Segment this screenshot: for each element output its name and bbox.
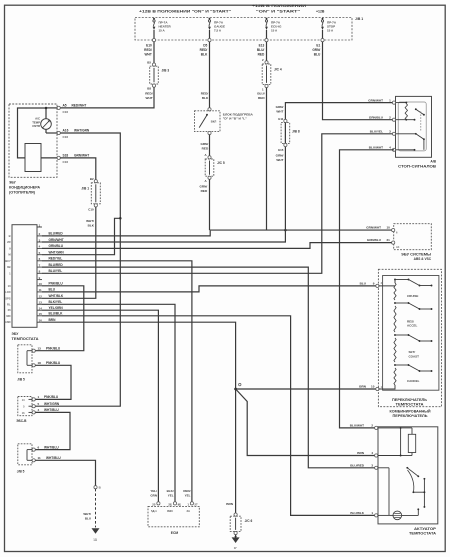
resistor R inside stop switch bbox=[405, 104, 407, 120]
svg-text:BLU/WHT: BLU/WHT bbox=[350, 424, 364, 428]
motor M symbol bbox=[393, 511, 402, 520]
svg-text:RED/: RED/ bbox=[201, 92, 209, 96]
fuse F2 label bbox=[214, 20, 225, 32]
solenoid coil bbox=[400, 428, 416, 457]
svg-text:GRN/: GRN/ bbox=[200, 142, 208, 146]
wire J/C4 down to IG bus bbox=[266, 88, 268, 231]
svg-text:15 A: 15 A bbox=[271, 28, 278, 32]
ABS ECU dashed box bbox=[394, 224, 432, 250]
svg-text:J/B 5: J/B 5 bbox=[17, 469, 25, 473]
svg-text:J/C 4: J/C 4 bbox=[274, 68, 282, 72]
fuse F1 HEATER 15 A bbox=[153, 18, 156, 39]
stop switch pin labels bbox=[368, 98, 391, 149]
wire label E1 GRN/BLU bbox=[312, 44, 321, 57]
svg-text:BLU/YEL: BLU/YEL bbox=[49, 269, 63, 273]
ECU pin 7 stub bbox=[37, 263, 42, 267]
svg-text:GRN/WHT: GRN/WHT bbox=[74, 154, 89, 158]
svg-text:YEL/: YEL/ bbox=[150, 489, 157, 493]
svg-text:CANCEL: CANCEL bbox=[407, 379, 420, 383]
svg-text:YEL/GRN: YEL/GRN bbox=[49, 306, 64, 310]
wire ECU pin11 BLU to control switch pin9 bbox=[42, 286, 377, 292]
svg-text:15 A: 15 A bbox=[159, 28, 166, 32]
svg-text:WHT/: WHT/ bbox=[83, 512, 91, 516]
svg-text:RED/: RED/ bbox=[144, 48, 152, 52]
svg-text:АКТУАТОР: АКТУАТОР bbox=[414, 527, 437, 531]
fuse F4 label bbox=[327, 20, 337, 32]
label A/C TEMP CNTR bbox=[32, 117, 40, 129]
svg-text:B2: B2 bbox=[90, 177, 94, 181]
svg-text:A16: A16 bbox=[63, 129, 69, 133]
label BLU 9 bbox=[360, 282, 383, 286]
actuator pin labels bbox=[350, 424, 374, 515]
svg-text:D5: D5 bbox=[203, 44, 207, 48]
svg-text:BLU/RED: BLU/RED bbox=[49, 232, 64, 236]
ECU pin 4 stub bbox=[37, 245, 42, 249]
wire J/C5 down to IG bus corner bbox=[209, 179, 211, 230]
stop switch internal resistor bbox=[396, 102, 408, 104]
internal wiring of A/C amplifier bbox=[18, 108, 58, 158]
svg-text:BLU: BLU bbox=[360, 282, 367, 286]
svg-text:E1: E1 bbox=[316, 44, 320, 48]
svg-text:E10: E10 bbox=[146, 44, 152, 48]
svg-text:ТЕМПОСТАТА: ТЕМПОСТАТА bbox=[409, 531, 437, 535]
svg-text:BRN: BRN bbox=[357, 451, 364, 455]
svg-text:13: 13 bbox=[38, 346, 42, 350]
wire ECU pin5 WHT/GRN jog up to vertical B bbox=[42, 218, 120, 254]
svg-text:WHT: WHT bbox=[276, 158, 283, 162]
label combination switch bbox=[390, 410, 432, 419]
svg-text:RL: RL bbox=[7, 302, 11, 306]
label actuator bbox=[409, 527, 437, 536]
svg-text:BLU/RED: BLU/RED bbox=[49, 263, 64, 267]
ABS pin labels bbox=[366, 226, 400, 249]
svg-text:ПЕРЕКЛЮЧАТЕЛЬ: ПЕРЕКЛЮЧАТЕЛЬ bbox=[392, 398, 428, 402]
svg-text:10: 10 bbox=[39, 282, 43, 286]
svg-text:PNK/BLU: PNK/BLU bbox=[49, 282, 64, 286]
svg-text:C16: C16 bbox=[63, 135, 69, 139]
svg-text:GRN/: GRN/ bbox=[199, 185, 207, 189]
switch contact arm 4 bbox=[394, 364, 432, 372]
actuator motor branch bbox=[378, 468, 393, 516]
svg-text:YEL: YEL bbox=[168, 494, 174, 498]
label ABS & VSC ECU bbox=[401, 252, 432, 261]
connector pin10 BRN bbox=[376, 387, 379, 390]
svg-text:J/B 1: J/B 1 bbox=[81, 186, 89, 190]
fuse F1 label bbox=[159, 20, 172, 32]
junction block box1 PNK/BLU bbox=[18, 345, 36, 373]
junction connector J/C 4 on F3 wire bbox=[262, 61, 271, 88]
wire J/B3 to node at y108 then left to A/C amplifier pin A5 bbox=[60, 87, 154, 108]
svg-text:J/B 1: J/B 1 bbox=[355, 17, 363, 21]
svg-text:BLK: BLK bbox=[202, 96, 209, 100]
ECU pin 15 stub bbox=[37, 312, 42, 316]
PNP heater switch block dashed box bbox=[195, 108, 221, 135]
node dot pin5 joins vertical B bbox=[119, 217, 122, 220]
svg-text:C10: C10 bbox=[88, 208, 94, 212]
ground symbol right bbox=[232, 537, 240, 550]
ECM dashed box bbox=[148, 506, 199, 526]
svg-text:ABS & VSC: ABS & VSC bbox=[414, 257, 432, 261]
svg-text:ЕСМ: ЕСМ bbox=[171, 531, 179, 535]
svg-text:10: 10 bbox=[386, 226, 390, 230]
svg-text:WHT/GRN: WHT/GRN bbox=[44, 402, 60, 406]
svg-text:9Б: 9Б bbox=[178, 502, 182, 506]
node junction dot on IG bus bbox=[284, 229, 287, 232]
svg-text:WHT/: WHT/ bbox=[86, 219, 94, 223]
fuse F3 label bbox=[271, 20, 282, 32]
junction block J/B 3 on F1 wire bbox=[150, 63, 159, 87]
wire S18 to J/B 1 bbox=[60, 158, 95, 181]
svg-text:3А: 3А bbox=[187, 509, 190, 513]
svg-text:B5: B5 bbox=[147, 60, 151, 64]
wire GRN/WHT riser: stop switch pin1 to ECU pin3 bbox=[42, 103, 394, 242]
ECU pin 14 stub bbox=[37, 307, 42, 311]
svg-text:2Б: 2Б bbox=[168, 502, 172, 506]
label box2 pins bbox=[16, 395, 60, 423]
svg-text:B: B bbox=[9, 234, 11, 238]
svg-text:RED/: RED/ bbox=[200, 48, 208, 52]
svg-text:RED/: RED/ bbox=[145, 92, 153, 96]
svg-text:RED/WHT: RED/WHT bbox=[72, 104, 87, 108]
ECM internal pin ids bbox=[151, 509, 190, 513]
svg-text:BLU/BLK: BLU/BLK bbox=[350, 511, 364, 515]
node BRN junction dot bbox=[234, 388, 237, 391]
svg-text:C16: C16 bbox=[63, 110, 69, 114]
junction block J/B 1 on WHT/BLK wire bbox=[91, 180, 100, 207]
label stop lamp switch bbox=[398, 160, 437, 169]
ECU pin 6 stub bbox=[37, 257, 42, 261]
small circle marker near BRN node bbox=[239, 383, 241, 385]
wire fuse F2 down to PNP switch block bbox=[209, 42, 211, 109]
svg-text:MD: MD bbox=[6, 314, 10, 318]
svg-text:E13: E13 bbox=[259, 44, 265, 48]
junction connector E11/E15 on GRN/WHT wire bbox=[278, 117, 300, 152]
resistor ladder zigzags bbox=[394, 283, 396, 385]
svg-text:ЭБС-В: ЭБС-В bbox=[16, 419, 27, 423]
wire PNP block to J/C5 bbox=[209, 135, 211, 158]
fuse F4 STOP 15 A bbox=[321, 18, 324, 39]
svg-text:КОНДИЦИОНЕРА: КОНДИЦИОНЕРА bbox=[9, 186, 41, 190]
svg-text:2R: 2R bbox=[7, 240, 10, 244]
wire label RED/WHT below J/B3 bbox=[145, 92, 153, 100]
svg-text:COAST: COAST bbox=[409, 354, 420, 358]
wire label BLU/RED below J/C4 bbox=[257, 92, 265, 100]
svg-text:BLU/: BLU/ bbox=[257, 92, 264, 96]
wire fuse F3 to J/C4 bbox=[266, 42, 268, 62]
A/C amplifier dashed box bbox=[9, 104, 57, 177]
svg-text:10: 10 bbox=[8, 284, 11, 288]
wire box3 pin2 WHT/BLU to shield ground bbox=[35, 460, 95, 485]
connector under fuse F1 bbox=[152, 39, 155, 42]
svg-text:GRN/WHT: GRN/WHT bbox=[368, 98, 383, 102]
svg-text:WHT/BLK: WHT/BLK bbox=[49, 294, 64, 298]
svg-text:BLU/YEL: BLU/YEL bbox=[370, 130, 383, 134]
node dot inside A/C amplifier bbox=[45, 107, 48, 110]
svg-text:1Д: 1Д bbox=[93, 538, 97, 542]
label A / J/C 5 / A bbox=[205, 153, 225, 183]
svg-text:+12В В ПОЛОЖЕНИИ "ON" И "START: +12В В ПОЛОЖЕНИИ "ON" И "START" bbox=[139, 9, 231, 13]
svg-text:27: 27 bbox=[194, 502, 198, 506]
svg-text:16: 16 bbox=[39, 319, 43, 323]
svg-text:"D" И "В" И "L": "D" И "В" И "L" bbox=[223, 117, 248, 121]
svg-text:ЭБУ СИСТЕМЫ: ЭБУ СИСТЕМЫ bbox=[401, 252, 431, 256]
svg-text:8B: 8B bbox=[7, 265, 10, 269]
svg-text:RED: RED bbox=[258, 52, 265, 56]
svg-text:ЭБУ: ЭБУ bbox=[9, 181, 17, 185]
connector on shield ground wire bbox=[94, 486, 97, 489]
svg-text:WHT/BLU: WHT/BLU bbox=[44, 445, 59, 449]
svg-text:GND: GND bbox=[5, 320, 11, 324]
svg-text:+12В В ПОЛОЖЕНИИ: +12В В ПОЛОЖЕНИИ bbox=[252, 4, 307, 8]
svg-text:IN23: IN23 bbox=[167, 509, 173, 513]
svg-text:WHT/BLU: WHT/BLU bbox=[46, 456, 61, 460]
svg-text:BLU/: BLU/ bbox=[257, 48, 265, 52]
ECU pin 1 stub bbox=[37, 223, 42, 227]
svg-text:E11: E11 bbox=[278, 117, 283, 121]
wire A16 WHT/GRN vertical B down to J/B block pin bbox=[35, 133, 121, 406]
svg-text:BRN: BRN bbox=[49, 318, 57, 322]
cruise control ECU box bbox=[12, 225, 37, 328]
svg-text:RED/: RED/ bbox=[183, 489, 190, 493]
svg-text:CRUISE: CRUISE bbox=[407, 294, 418, 298]
stop lamp switch inner housing bbox=[398, 102, 426, 151]
svg-text:BLK/YEL: BLK/YEL bbox=[49, 300, 63, 304]
label box1 pins PNK/BLU bbox=[17, 346, 61, 381]
svg-text:WHT: WHT bbox=[276, 110, 283, 114]
wire ECU pin15 BLU/BLK to actuator pin4 bbox=[42, 316, 375, 516]
svg-text:13: 13 bbox=[39, 301, 43, 305]
connector under fuse F4 bbox=[321, 39, 324, 42]
wire box1 pin2 to box2 pin1 bbox=[35, 365, 71, 399]
svg-text:J/C 5: J/C 5 bbox=[217, 161, 225, 165]
svg-text:PNK/BLU: PNK/BLU bbox=[46, 361, 61, 365]
wire label GRN/WHT below J/C E15 bbox=[276, 153, 284, 161]
ECU pin 12 stub bbox=[37, 295, 42, 299]
svg-text:А/В: А/В bbox=[430, 160, 436, 164]
ECM connector labels YEL/GRN BLK/YEL RED/YEL bbox=[150, 489, 190, 497]
svg-text:12: 12 bbox=[39, 295, 43, 299]
svg-text:21: 21 bbox=[386, 238, 390, 242]
svg-text:RED: RED bbox=[201, 189, 208, 193]
fuse F2 GAUGE 7,5 A bbox=[208, 18, 211, 39]
wire fuse F4 down to stop lamp switch pin 2 bbox=[323, 42, 395, 120]
cruise actuator box bbox=[378, 427, 438, 524]
svg-text:5Д-1: 5Д-1 bbox=[151, 509, 157, 513]
svg-text:BLU: BLU bbox=[314, 52, 321, 56]
actuator pin connectors bbox=[375, 426, 378, 517]
svg-text:E15: E15 bbox=[278, 148, 284, 152]
wire box2 pin3 to box3 pin1 bbox=[35, 412, 70, 449]
actuator position switch contacts bbox=[402, 467, 426, 516]
svg-text:GRN/BLU: GRN/BLU bbox=[367, 238, 382, 242]
svg-text:RED: RED bbox=[202, 147, 209, 151]
svg-text:RED: RED bbox=[258, 96, 265, 100]
junction connector J/C 6 on BRN ground wire bbox=[230, 513, 241, 535]
IG bus wire from F2/F3 to ABS ECU pin 1 bbox=[210, 229, 394, 231]
svg-text:ACCEL: ACCEL bbox=[407, 324, 418, 328]
wire ECU pin8 BLU/YEL to stop switch pin3 bbox=[42, 134, 394, 273]
connector pin9 BLU bbox=[376, 284, 379, 287]
labels B2 / J/B 1 / C10 bbox=[81, 177, 94, 212]
svg-text:15: 15 bbox=[39, 312, 43, 316]
connector under fuse F3 bbox=[265, 39, 268, 42]
svg-text:PNK/BLU: PNK/BLU bbox=[44, 395, 59, 399]
svg-text:BC7: BC7 bbox=[5, 259, 11, 263]
svg-text:GRN/BLU: GRN/BLU bbox=[49, 244, 64, 248]
wire ECU pin4 GRN/BLU to ABS ECU pin2 bbox=[42, 243, 393, 249]
junction block box2 ABS ECU bbox=[18, 397, 36, 416]
svg-text:7,5 A: 7,5 A bbox=[214, 28, 222, 32]
wire label D5 RED/BLK bbox=[200, 44, 208, 57]
stop switch internal contacts lower bbox=[396, 133, 425, 151]
wire stop switch pin4 BLU/WHT to actuator pin1 bbox=[340, 150, 395, 428]
svg-text:BLK: BLK bbox=[88, 223, 95, 227]
svg-text:LCD: LCD bbox=[5, 290, 11, 294]
wire ECU pin16 BRN ground wire bbox=[42, 322, 236, 513]
label RES/ACC bbox=[407, 319, 418, 327]
wire label GRN/WHT above J/C E11 bbox=[276, 105, 284, 113]
ECU pin 9 stub bbox=[37, 276, 42, 280]
ECU pin 10 stub bbox=[37, 282, 42, 286]
label ECU TEMPOSTAT bbox=[12, 332, 40, 341]
svg-text:WHT/GRN: WHT/GRN bbox=[74, 129, 90, 133]
svg-text:BRN: BRN bbox=[359, 385, 366, 389]
connector A5 RED/WHT bbox=[57, 106, 60, 109]
wire fuse F1 to J/B3 bbox=[153, 42, 155, 65]
ECU pin 5 stub bbox=[37, 251, 42, 255]
svg-text:"ON" И "START": "ON" И "START" bbox=[256, 9, 301, 13]
wire ECU pin14 YEL/GRN to ECM bbox=[42, 310, 158, 502]
connector A16 WHT/GRN bbox=[57, 131, 60, 134]
svg-text:ТЕМПОСТАТА: ТЕМПОСТАТА bbox=[396, 402, 425, 406]
wire label GRN/RED above J/C5 bbox=[200, 142, 208, 150]
svg-text:ВКЛ: ВКЛ bbox=[211, 119, 217, 123]
node dot above ground bbox=[235, 536, 237, 538]
label WHT/BLU on shield wire bbox=[83, 512, 91, 520]
control switch resistor ladder bus bbox=[378, 280, 395, 286]
label box3 pins WHT/BLU bbox=[17, 445, 62, 473]
A/C temp control sensor circle bbox=[41, 119, 52, 130]
ECU pin 3 stub bbox=[37, 238, 42, 242]
svg-text:11: 11 bbox=[38, 456, 42, 460]
ABS pin connectors bbox=[392, 229, 395, 245]
switch contact arm 3 bbox=[394, 334, 432, 342]
svg-text:15 A: 15 A bbox=[327, 28, 334, 32]
wire J/C6 to ground bbox=[235, 535, 237, 537]
junction block J/B 2 dashed box bbox=[135, 18, 352, 41]
svg-text:18: 18 bbox=[38, 361, 42, 365]
svg-text:(ОТОПИТЕЛЯ): (ОТОПИТЕЛЯ) bbox=[9, 191, 35, 195]
label BRN 10 bbox=[359, 385, 382, 389]
ECU pin 13 stub bbox=[37, 301, 42, 305]
svg-text:BLK/: BLK/ bbox=[167, 489, 174, 493]
stop switch pin connectors bbox=[392, 101, 395, 151]
switch contact arm 1 bbox=[394, 279, 432, 287]
svg-text:S18: S18 bbox=[63, 154, 69, 158]
svg-text:ТЕМПОСТАТА: ТЕМПОСТАТА bbox=[12, 337, 40, 341]
svg-text:WHT: WHT bbox=[146, 96, 153, 100]
ECU pin 16 stub bbox=[37, 319, 42, 323]
wire label S18 GRN/WHT + C16 bbox=[63, 154, 90, 165]
svg-text:GRN/WHT: GRN/WHT bbox=[49, 238, 64, 242]
svg-text:СТОП-СИГНАЛОВ: СТОП-СИГНАЛОВ bbox=[398, 164, 437, 168]
wire ECU pin2 BLU/RED to IG bus bbox=[42, 231, 210, 236]
wire ECU pin13 BLK/YEL to ECM bbox=[42, 304, 175, 502]
svg-text:КОМБИНИРОВАННЫЙ: КОМБИНИРОВАННЫЙ bbox=[390, 410, 432, 414]
wire label GRN/RED below J/C5 bbox=[199, 185, 207, 193]
connector under fuse F2 bbox=[208, 39, 211, 42]
stop switch internal contacts upper bbox=[396, 108, 425, 131]
svg-text:C16: C16 bbox=[63, 160, 69, 164]
wire J/B1 down to ECU pin12 bbox=[42, 207, 96, 298]
label heater block bbox=[223, 113, 254, 121]
label A/C amplifier bbox=[9, 181, 41, 195]
svg-text:A4: A4 bbox=[396, 245, 400, 249]
wire label A5 RED/WHT + C16 bbox=[63, 104, 87, 115]
svg-text:BLU: BLU bbox=[49, 288, 56, 292]
label control switch bbox=[392, 398, 428, 406]
svg-text:WHT/GRN: WHT/GRN bbox=[49, 251, 65, 255]
svg-text:26: 26 bbox=[8, 308, 11, 312]
wire BRN diagonal branch to actuator pin2 bbox=[236, 389, 375, 456]
wire ECU pin7 BLU/RED to actuator pin3 bbox=[42, 267, 375, 468]
ECU pin 11 stub bbox=[37, 288, 42, 292]
wire label E13 BLU/RED bbox=[257, 44, 265, 57]
svg-text:WHT/BLU: WHT/BLU bbox=[44, 408, 59, 412]
wire ECU pin6 RED/YEL to ECM bbox=[42, 261, 192, 502]
A/C amplifier inner block rectangle bbox=[25, 144, 41, 172]
svg-text:GRN/WHT: GRN/WHT bbox=[366, 226, 381, 230]
wire ECU pin10 PNK/BLU to J/C block bbox=[35, 286, 84, 351]
svg-text:GRN/: GRN/ bbox=[276, 153, 284, 157]
ECU pin 2 stub bbox=[37, 232, 42, 236]
svg-text:WHT: WHT bbox=[145, 52, 152, 56]
svg-text:B: B bbox=[99, 486, 101, 490]
svg-text:BRN: BRN bbox=[226, 502, 233, 506]
svg-text:J/B 5: J/B 5 bbox=[17, 378, 25, 382]
svg-text:BLU/BLK: BLU/BLK bbox=[49, 312, 64, 316]
svg-text:GRN: GRN bbox=[150, 494, 157, 498]
connector S18 GRN/WHT bbox=[57, 156, 60, 159]
svg-text:ПЕРЕКЛЮЧАТЕЛЬ: ПЕРЕКЛЮЧАТЕЛЬ bbox=[393, 414, 429, 418]
wire label WHT/BLK bbox=[86, 219, 95, 227]
svg-text:A5: A5 bbox=[63, 104, 67, 108]
svg-text:SPS: SPS bbox=[5, 296, 11, 300]
svg-text:BLK: BLK bbox=[201, 52, 208, 56]
svg-text:1Г: 1Г bbox=[234, 546, 238, 550]
ECU pin 8 stub bbox=[37, 270, 42, 274]
svg-text:B8: B8 bbox=[147, 87, 151, 91]
junction block box3 WHT/BLU bbox=[18, 444, 36, 465]
ECM pin numbers bbox=[152, 502, 198, 506]
svg-text:ЭБУ: ЭБУ bbox=[12, 332, 20, 336]
control switch outer dashed box bbox=[378, 269, 441, 406]
svg-text:11: 11 bbox=[39, 288, 42, 292]
svg-text:+12В: +12В bbox=[316, 9, 325, 13]
svg-text:RED/YEL: RED/YEL bbox=[49, 257, 63, 261]
svg-text:BLU: BLU bbox=[85, 516, 91, 520]
svg-text:GRN/: GRN/ bbox=[312, 48, 320, 52]
shield drain dashed wire bbox=[95, 489, 97, 528]
svg-text:14: 14 bbox=[39, 307, 43, 311]
ECM connector arcs bbox=[157, 502, 194, 505]
svg-text:BLU/RED: BLU/RED bbox=[350, 464, 365, 468]
svg-text:BLU/WHT: BLU/WHT bbox=[369, 146, 383, 150]
wire BRN branch to control switch pin10 bbox=[236, 388, 377, 390]
control switch inner box bbox=[383, 276, 439, 391]
svg-text:J/B 3: J/B 3 bbox=[162, 69, 170, 73]
actuator solenoid circuit bbox=[378, 427, 402, 456]
